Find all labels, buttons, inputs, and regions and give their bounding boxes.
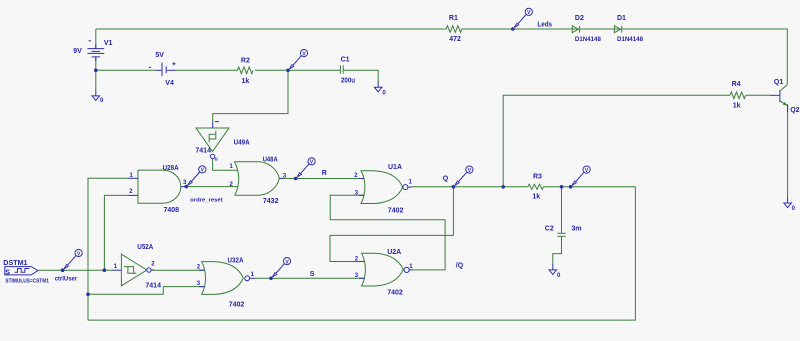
wire top rail from V1 to Q1 collector <box>96 29 788 85</box>
ground 0 right of C1 <box>374 81 382 92</box>
svg-text:R3: R3 <box>533 173 542 180</box>
resistor R1 <box>446 26 462 33</box>
svg-text:0: 0 <box>792 206 796 212</box>
wire U28A output to U48A pin 2 <box>184 186 238 188</box>
resistor R2 <box>238 67 254 74</box>
resistor R3 <box>528 184 544 189</box>
wire U49A output down to U48A pin 1 <box>213 159 238 170</box>
battery V4 <box>149 62 176 76</box>
junction dot V1 node <box>94 69 98 73</box>
svg-text:C1: C1 <box>341 57 350 64</box>
svg-text:S: S <box>5 269 10 276</box>
wire R4 to Q1 base <box>746 94 770 96</box>
wire U2A output to U1A pin 3 feedback <box>330 195 445 270</box>
node A junction dot <box>286 69 290 73</box>
svg-text:7402: 7402 <box>229 301 245 308</box>
svg-text:U28A: U28A <box>163 165 179 172</box>
junction dot Q node <box>452 185 456 189</box>
wire Q row U1A output to R3 <box>412 186 528 188</box>
svg-text:0: 0 <box>382 91 386 97</box>
diode D1 <box>614 26 621 33</box>
junction dot Leds node <box>511 27 515 31</box>
svg-text:U49A: U49A <box>234 140 250 147</box>
svg-text:/Q: /Q <box>456 263 464 270</box>
junction dot R node <box>294 177 298 181</box>
transistor Q1 <box>770 85 788 112</box>
svg-text:Q: Q <box>443 175 449 182</box>
junction dot S node <box>269 277 273 281</box>
svg-text:1: 1 <box>409 264 413 270</box>
ground 0 below V1 <box>92 90 100 101</box>
svg-text:U1A: U1A <box>388 164 402 171</box>
probe V right of R3 <box>572 166 590 185</box>
svg-text:1: 1 <box>230 164 234 170</box>
svg-text:7402: 7402 <box>388 207 404 214</box>
svg-text:DSTM1: DSTM1 <box>3 260 27 267</box>
svg-text:2: 2 <box>129 189 133 195</box>
svg-text:U48A: U48A <box>263 156 278 163</box>
resistor R4 <box>730 92 746 99</box>
probe V at ctrlUser <box>64 249 82 268</box>
svg-text:U32A: U32A <box>228 258 244 265</box>
svg-text:472: 472 <box>449 36 461 43</box>
svg-text:7414: 7414 <box>145 282 161 289</box>
svg-text:C2: C2 <box>545 226 554 233</box>
svg-text:S: S <box>310 271 315 278</box>
wire V1 stem top <box>95 29 97 49</box>
NOR gate U32A (7402) <box>199 262 255 295</box>
wire U52A output to U32A pin 2 <box>153 269 205 271</box>
junction dot R4 tap <box>501 185 505 189</box>
svg-text:D1N4148: D1N4148 <box>575 37 602 43</box>
probe V at R node <box>297 158 315 177</box>
svg-text:1: 1 <box>114 264 118 270</box>
wire R4 branch from Q row <box>503 95 730 187</box>
wire C1 to ground corner <box>344 70 379 81</box>
svg-text:2: 2 <box>197 264 201 270</box>
probe V at S node <box>273 258 291 277</box>
svg-text:R1: R1 <box>449 15 458 22</box>
svg-text:ctrlUser: ctrlUser <box>55 277 78 283</box>
wire V1 bottom to ground <box>95 57 97 90</box>
svg-text:1k: 1k <box>532 193 540 200</box>
svg-text:R: R <box>322 170 327 177</box>
wire S net U32A output to U2A pin 3 <box>255 277 364 279</box>
junction dot C2 tap <box>560 185 564 189</box>
svg-text:2: 2 <box>354 173 358 179</box>
svg-text:7402: 7402 <box>387 290 403 297</box>
svg-text:5V: 5V <box>155 52 164 59</box>
svg-text:0: 0 <box>557 273 561 279</box>
svg-text:Q2: Q2 <box>790 107 799 114</box>
junction dot ctrlUser probe <box>61 268 65 272</box>
svg-text:2: 2 <box>151 262 155 268</box>
ground 0 below C2 <box>549 264 557 275</box>
wire bottom rail up right side to Q row <box>88 187 635 320</box>
svg-text:D1: D1 <box>617 15 626 22</box>
svg-text:0: 0 <box>100 98 104 104</box>
diode D2 <box>572 26 579 33</box>
inverter U49A (7414) pointing down <box>196 121 229 158</box>
junction dot probe right of R3 <box>569 185 573 189</box>
wire Q1 emitter down to ground <box>787 106 789 197</box>
svg-text:9V: 9V <box>73 48 82 55</box>
svg-text:D1N4148: D1N4148 <box>617 37 644 43</box>
NOR gate U1A (7402) <box>359 171 412 204</box>
svg-text:1: 1 <box>409 180 413 186</box>
NOR gate U2A (7402) <box>359 253 413 286</box>
stimulus DSTM1 <box>5 267 38 275</box>
wire main row V1 to V4 <box>96 69 155 71</box>
probe V at Leds node <box>514 8 532 27</box>
svg-text:STIMULUS=CSTM1: STIMULUS=CSTM1 <box>5 278 49 284</box>
wire Q down and to U2A pin 2 <box>330 187 453 262</box>
inverter U52A (7414) pointing right <box>111 254 154 286</box>
OR gate U48A (7432) <box>235 162 284 195</box>
svg-text:1: 1 <box>251 272 255 278</box>
wire V4 to R2 <box>175 69 238 71</box>
junction dot U28A pin2 tap <box>103 268 107 272</box>
wire R2 to C1 <box>255 69 340 71</box>
probe V at Q node <box>455 166 473 185</box>
wire R net U48A output to U1A pin 2 <box>284 178 364 180</box>
svg-text:D2: D2 <box>575 15 584 22</box>
junction dot ordre_reset <box>185 185 189 189</box>
svg-text:7414: 7414 <box>195 148 211 155</box>
svg-text:ordre_reset: ordre_reset <box>190 197 223 203</box>
wire C2 bottom to ground <box>553 237 562 264</box>
svg-text:200u: 200u <box>341 77 355 84</box>
svg-text:R2: R2 <box>241 57 250 64</box>
junction dot U32A pin3 tap <box>86 293 90 297</box>
wire node A down to U49A input <box>213 70 288 121</box>
wire U28A pin 1 left and down to bottom rail <box>88 178 128 320</box>
svg-text:1k: 1k <box>242 78 250 85</box>
probe V at ordre_reset <box>188 166 206 185</box>
svg-text:Q1: Q1 <box>774 79 783 86</box>
svg-text:2: 2 <box>230 182 234 188</box>
capacitor C2 <box>557 233 565 236</box>
wire R3 to right vertical <box>543 186 635 188</box>
capacitor C1 <box>340 65 343 73</box>
AND gate U28A (7408) <box>128 170 186 203</box>
ground 0 below Q1 emitter <box>784 197 792 208</box>
svg-text:3m: 3m <box>571 226 581 233</box>
svg-text:1k: 1k <box>733 102 741 109</box>
svg-text:R4: R4 <box>732 81 741 88</box>
svg-text:U52A: U52A <box>137 244 153 251</box>
svg-text:V4: V4 <box>165 80 174 87</box>
svg-text:Leds: Leds <box>537 22 552 29</box>
svg-text:U2A: U2A <box>387 249 401 256</box>
wire junction to U32A pin 3 <box>88 287 205 295</box>
battery V1 <box>87 41 104 61</box>
wire C2 branch from Q row <box>561 187 563 233</box>
wire U28A pin 2 left and down to ctrlUser <box>104 195 128 270</box>
svg-text:7408: 7408 <box>164 207 180 214</box>
wire ctrlUser row DSTM1 to U52A <box>38 269 112 271</box>
svg-text:V1: V1 <box>104 40 113 47</box>
svg-text:u: u <box>215 157 218 163</box>
svg-text:7432: 7432 <box>263 198 279 205</box>
probe V at node A <box>290 50 308 69</box>
